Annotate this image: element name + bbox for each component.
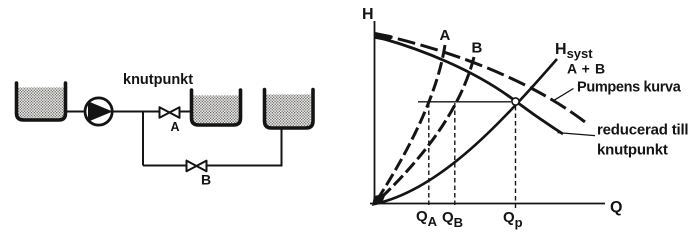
pipe valve A to tank T2 — [181, 111, 193, 113]
origin wedge — [372, 194, 386, 207]
pipe T1 to pump — [67, 111, 86, 113]
guide QB (dashed vertical) — [454, 103, 456, 208]
svg-text:QB: QB — [442, 209, 463, 230]
valve B — [187, 161, 207, 172]
pointer to pump curve — [554, 89, 574, 101]
svg-text:H: H — [362, 6, 374, 23]
svg-text:Hsyst: Hsyst — [555, 41, 593, 61]
svg-text:Qp: Qp — [503, 209, 523, 230]
Q axis — [370, 203, 605, 205]
svg-text:A + B: A + B — [567, 61, 606, 77]
tank T3 — [265, 90, 314, 129]
svg-text:QA: QA — [416, 208, 438, 229]
reduced pump curve (solid) — [375, 37, 563, 135]
guide QA (dashed vertical) — [428, 103, 430, 208]
guide Qp (dashed vertical) — [515, 106, 517, 209]
wire branch to valve B — [143, 165, 187, 167]
wire riser to tank T3 — [281, 127, 283, 167]
wire branch down from knutpunkt node — [142, 113, 144, 166]
tank T1 — [17, 83, 66, 120]
pointer to reduced curve — [558, 133, 596, 136]
svg-text:B: B — [472, 40, 483, 57]
svg-text:B: B — [201, 172, 211, 188]
svg-text:A: A — [170, 120, 179, 134]
combined system curve Hsyst A+B (solid) — [375, 59, 558, 204]
pipe pump to valve A — [112, 111, 158, 113]
svg-text:Pumpens kurva: Pumpens kurva — [577, 80, 682, 96]
valve A — [160, 107, 180, 118]
horizontal guide line — [418, 101, 511, 103]
tank T2 — [192, 90, 241, 125]
system curve B (dashed) — [375, 57, 475, 204]
operating point — [512, 98, 519, 105]
pump curve (dashed) — [375, 34, 585, 123]
svg-text:knutpunkt: knutpunkt — [123, 72, 193, 88]
system curve A (dashed) — [375, 45, 446, 204]
svg-text:reducerad till: reducerad till — [597, 122, 688, 139]
wire valve B to riser — [207, 165, 282, 167]
pump curve start blob — [376, 36, 392, 39]
svg-text:Q: Q — [610, 199, 622, 216]
pump P — [85, 98, 113, 125]
svg-text:knutpunkt: knutpunkt — [597, 142, 668, 159]
H axis — [374, 21, 376, 204]
svg-text:A: A — [440, 27, 451, 44]
